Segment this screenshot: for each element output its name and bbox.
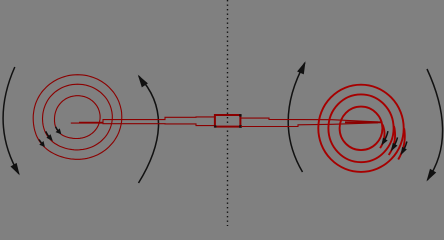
left spiral spring ring 3 (outer) bbox=[33, 75, 122, 160]
right shaft bottom line bbox=[241, 123, 378, 127]
coupling box bbox=[215, 115, 241, 127]
right spiral spring ring 2 (middle) bbox=[328, 94, 393, 162]
right spiral ramp stub 2 bbox=[389, 126, 395, 155]
rotation arc right of left spring (ccw) bbox=[139, 76, 159, 183]
left shaft bottom line bbox=[71, 123, 215, 126]
right shaft core line to spring center bbox=[345, 121, 382, 123]
left spiral spring ring 1 (inner) bbox=[55, 96, 101, 139]
right shaft top line bbox=[241, 118, 378, 122]
left spiral spring ring 2 (middle) bbox=[43, 84, 113, 150]
right spring arrow 3 (outer, cw) bbox=[401, 142, 407, 155]
left spring arrow 2 (middle, ccw) bbox=[46, 131, 52, 140]
right spiral spring ring 3 (outer) bbox=[318, 85, 403, 172]
left shaft top line bbox=[79, 117, 215, 122]
rotation arc far right (cw) bbox=[427, 69, 443, 180]
right spiral ramp stub 3 bbox=[398, 128, 405, 159]
right spring arrow 1 (inner, cw) bbox=[382, 131, 388, 144]
coupling box corner ticks bbox=[214, 114, 242, 128]
left spring arrow 3 (outer, ccw) bbox=[39, 140, 44, 147]
left spring arrow 1 (inner, ccw) bbox=[56, 127, 61, 134]
rotation arc far left (ccw) bbox=[3, 67, 19, 174]
rotation arc left of right spring (cw) bbox=[288, 63, 305, 172]
dotted axis line bbox=[227, 0, 229, 226]
right spiral spring ring 1 (inner) bbox=[340, 107, 383, 150]
right spring arrow 2 (middle, cw) bbox=[392, 137, 398, 150]
right spiral ramp stub 1 bbox=[380, 125, 384, 149]
